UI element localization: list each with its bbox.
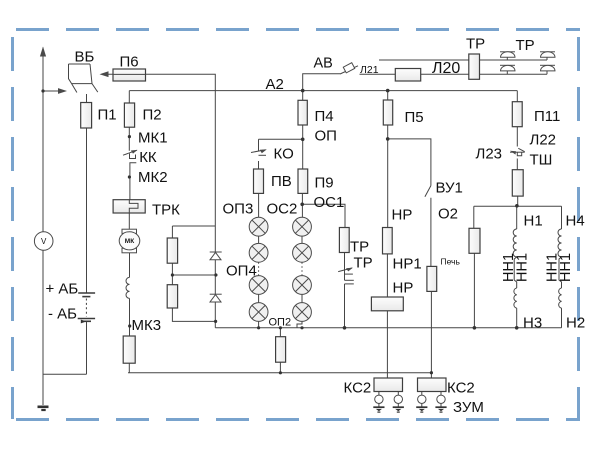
svg-text:НР: НР <box>392 207 413 224</box>
svg-text:Л20: Л20 <box>432 60 460 77</box>
svg-text:V: V <box>41 237 47 246</box>
svg-text:Л22: Л22 <box>530 132 557 149</box>
svg-text:Печь: Печь <box>441 257 461 267</box>
svg-text:П11: П11 <box>534 108 560 125</box>
svg-text:КО: КО <box>274 146 294 163</box>
svg-text:- АБ: - АБ <box>48 305 77 322</box>
svg-text:ЗУМ: ЗУМ <box>453 399 484 416</box>
svg-text:МК3: МК3 <box>132 317 162 334</box>
svg-text:МК1: МК1 <box>138 129 168 146</box>
svg-text:П5: П5 <box>405 109 424 126</box>
svg-text:О2: О2 <box>438 206 458 223</box>
svg-text:МК2: МК2 <box>138 169 168 186</box>
svg-text:ТР: ТР <box>466 36 485 53</box>
svg-text:НР1: НР1 <box>393 256 422 273</box>
svg-text:Н1: Н1 <box>524 213 543 230</box>
svg-text:ВБ: ВБ <box>75 49 95 66</box>
svg-text:ОП: ОП <box>315 128 337 145</box>
svg-text:П6: П6 <box>120 54 139 71</box>
svg-text:ТШ: ТШ <box>530 152 553 169</box>
svg-text:НН1: НН1 <box>514 253 530 282</box>
svg-text:ПВ: ПВ <box>271 173 292 190</box>
svg-text:П9: П9 <box>315 175 334 192</box>
svg-text:КС2: КС2 <box>447 380 475 397</box>
svg-text:Н3: Н3 <box>523 315 542 332</box>
svg-text:ОС2: ОС2 <box>267 201 298 218</box>
svg-text:+ АБ: + АБ <box>46 280 79 297</box>
svg-text:КК: КК <box>139 149 157 166</box>
svg-text:МК: МК <box>125 238 134 245</box>
svg-text:ТР: ТР <box>516 37 535 54</box>
svg-text:ТР: ТР <box>350 239 369 256</box>
svg-text:ТРК: ТРК <box>152 202 180 219</box>
svg-text:ОП3: ОП3 <box>223 201 254 218</box>
svg-text:ОП2: ОП2 <box>269 317 292 329</box>
svg-text:ВУ1: ВУ1 <box>436 180 463 197</box>
svg-text:П1: П1 <box>98 107 117 124</box>
svg-text:ОП4: ОП4 <box>226 263 257 280</box>
svg-text:Л21: Л21 <box>360 64 379 76</box>
svg-text:ТР: ТР <box>354 255 373 272</box>
svg-text:П2: П2 <box>143 107 162 124</box>
svg-text:Н4: Н4 <box>566 213 585 230</box>
svg-text:Л23: Л23 <box>476 146 503 163</box>
svg-text:ОС1: ОС1 <box>314 194 345 211</box>
svg-text:Н2: Н2 <box>566 315 585 332</box>
svg-text:А2: А2 <box>266 76 284 93</box>
svg-text:КС2: КС2 <box>344 380 372 397</box>
svg-text:П4: П4 <box>315 108 334 125</box>
svg-text:НР: НР <box>393 280 414 297</box>
svg-text:НН1: НН1 <box>558 253 574 282</box>
svg-text:АВ: АВ <box>314 56 333 72</box>
